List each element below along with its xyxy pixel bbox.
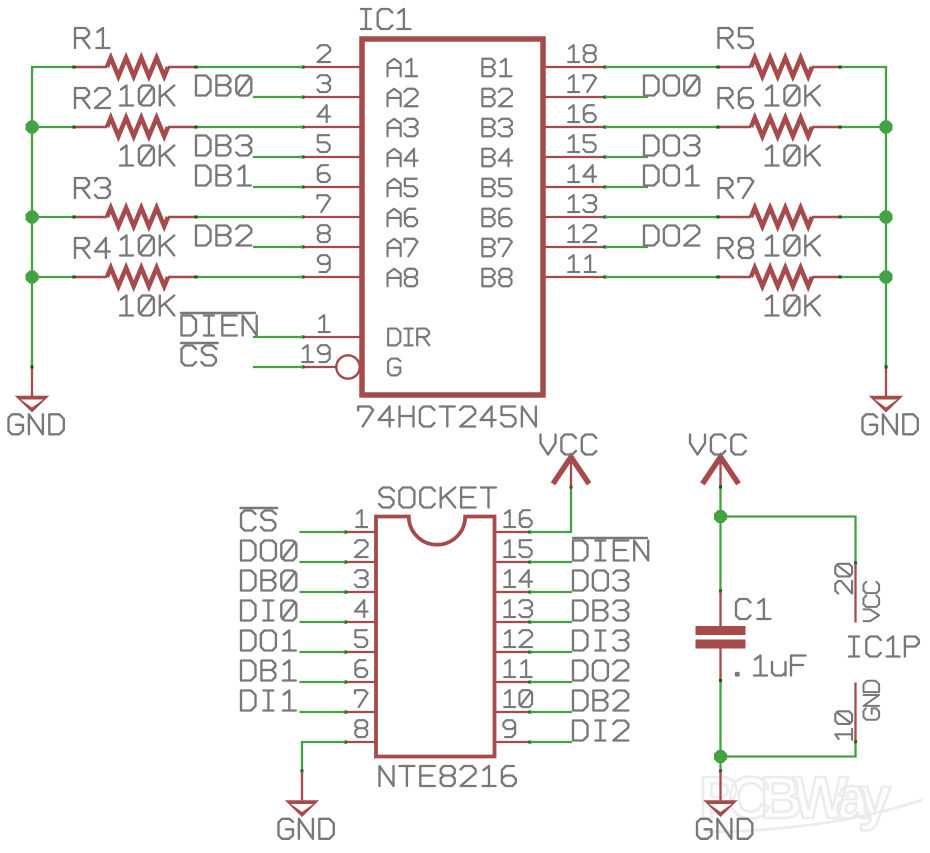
svg-text:PCBWay: PCBWay: [699, 765, 891, 831]
